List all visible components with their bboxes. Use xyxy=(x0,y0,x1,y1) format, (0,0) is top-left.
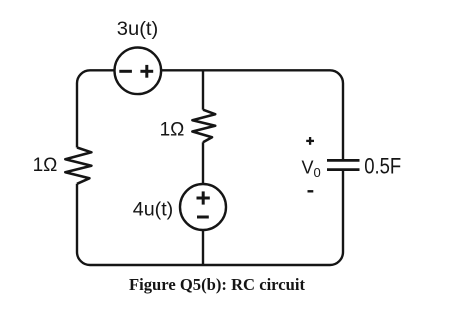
svg-text:Figure Q5(b): RC circuit: Figure Q5(b): RC circuit xyxy=(129,275,305,294)
voltage source V2 4u(t) (middle circle with + over -) xyxy=(180,184,226,230)
wire: upper loop (left wire upper + top wire + right wire upper) xyxy=(77,70,343,159)
wire: middle branch top segment xyxy=(202,70,204,109)
resistor R2 1ohm (middle branch zigzag) xyxy=(192,110,215,143)
svg-text:1Ω: 1Ω xyxy=(33,155,58,176)
label + polarity of V0 xyxy=(306,137,314,145)
label - polarity of V0 xyxy=(308,190,314,192)
voltage source V1 3u(t) (top circle with - +) xyxy=(115,48,162,95)
wire: lower loop (left wire lower + bottom wire + right wire lower) xyxy=(77,170,343,265)
resistor R1 1ohm (left branch zigzag) xyxy=(65,148,91,184)
wire: middle branch bottom segment xyxy=(202,142,204,265)
svg-text:3u(t): 3u(t) xyxy=(117,19,159,40)
svg-text:0.5F: 0.5F xyxy=(364,154,401,179)
svg-text:1Ω: 1Ω xyxy=(160,120,185,141)
capacitor C1 0.5F (plates on right wire) xyxy=(327,160,360,169)
svg-text:4u(t): 4u(t) xyxy=(133,199,174,220)
